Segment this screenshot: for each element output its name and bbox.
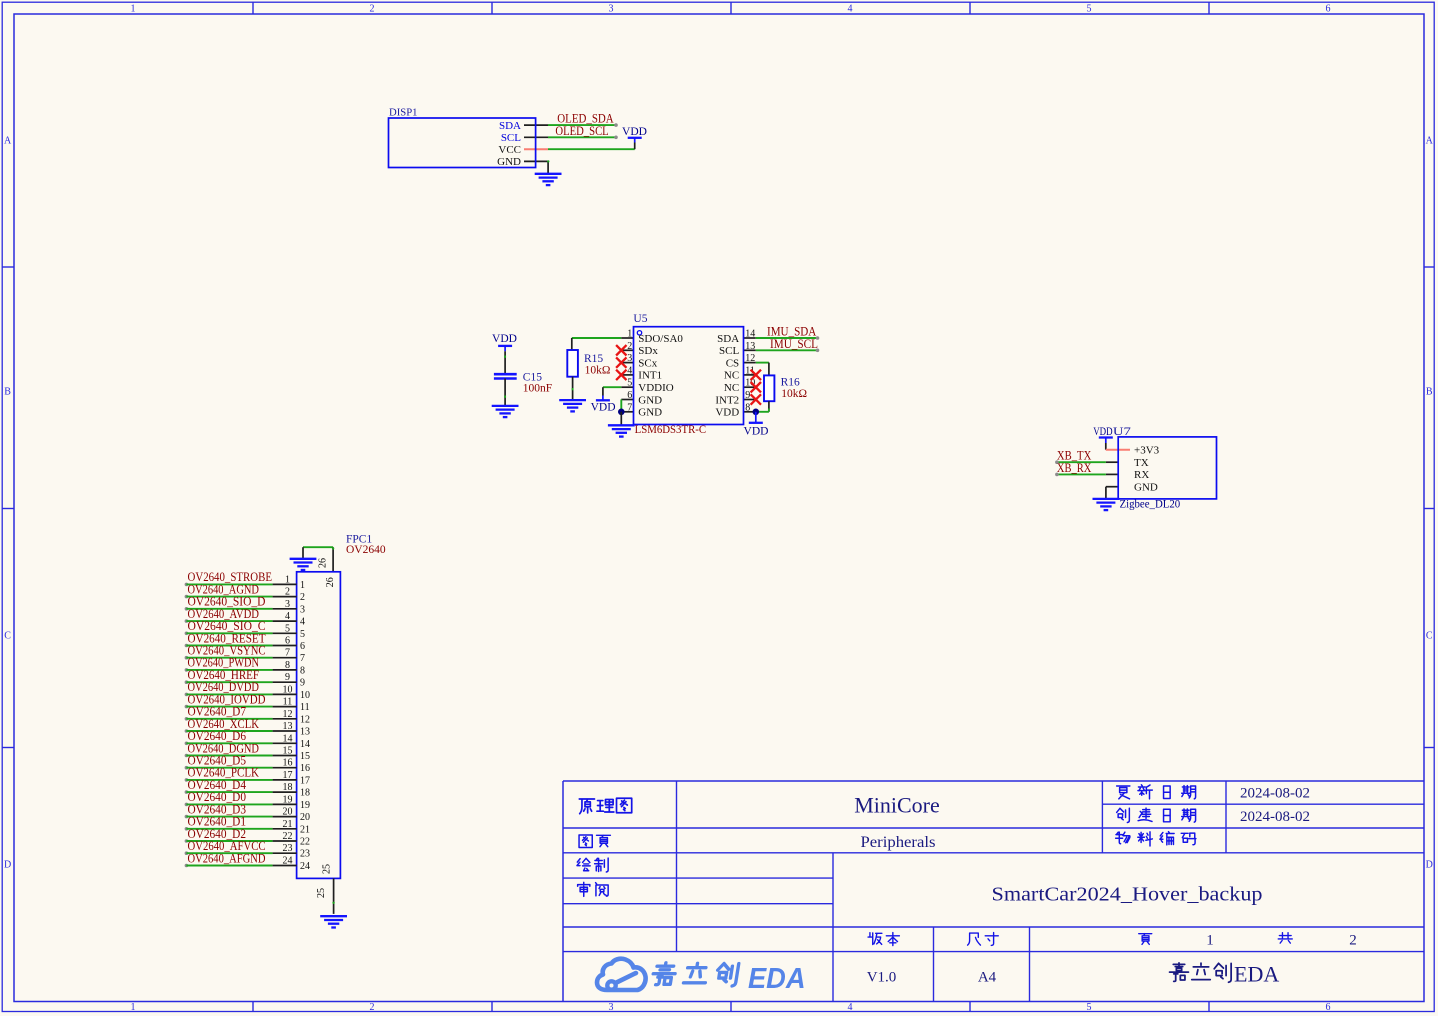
- svg-text:2: 2: [1349, 933, 1357, 949]
- svg-text:12: 12: [300, 714, 310, 725]
- svg-text:VDD: VDD: [492, 333, 517, 345]
- svg-text:NC: NC: [724, 370, 739, 382]
- svg-text:3: 3: [285, 599, 290, 610]
- svg-text:4: 4: [300, 617, 305, 628]
- svg-text:18: 18: [283, 782, 293, 793]
- svg-text:VDD: VDD: [591, 401, 616, 413]
- svg-text:19: 19: [283, 794, 293, 805]
- svg-text:9: 9: [300, 678, 305, 689]
- svg-text:16: 16: [283, 758, 293, 769]
- svg-text:OV2640_AFGND: OV2640_AFGND: [188, 851, 266, 865]
- svg-text:Zigbee_DL20: Zigbee_DL20: [1120, 499, 1181, 511]
- svg-text:15: 15: [300, 751, 310, 762]
- svg-text:10: 10: [283, 684, 293, 695]
- svg-text:GND: GND: [638, 407, 662, 419]
- svg-text:INT1: INT1: [638, 370, 662, 382]
- svg-text:RX: RX: [1134, 469, 1149, 481]
- svg-text:6: 6: [627, 390, 632, 401]
- svg-text:2024-08-02: 2024-08-02: [1240, 786, 1310, 802]
- svg-text:LSM6DS3TR-C: LSM6DS3TR-C: [635, 424, 707, 436]
- svg-text:25: 25: [316, 888, 327, 898]
- svg-text:4: 4: [285, 611, 290, 622]
- svg-text:23: 23: [300, 849, 310, 860]
- svg-text:5: 5: [1087, 1002, 1092, 1013]
- svg-text:3: 3: [609, 1002, 614, 1013]
- svg-text:24: 24: [283, 856, 293, 867]
- svg-text:B: B: [1426, 387, 1433, 398]
- svg-text:VDD: VDD: [622, 126, 647, 138]
- svg-text:21: 21: [300, 824, 310, 835]
- svg-text:22: 22: [283, 831, 293, 842]
- svg-text:C: C: [4, 631, 11, 642]
- svg-text:13: 13: [283, 721, 293, 732]
- svg-text:3: 3: [627, 353, 632, 364]
- svg-text:D: D: [1426, 860, 1433, 871]
- svg-text:2: 2: [300, 592, 305, 603]
- svg-text:5: 5: [627, 378, 632, 389]
- svg-text:U5: U5: [633, 313, 647, 325]
- svg-text:4: 4: [627, 365, 632, 376]
- svg-text:5: 5: [285, 623, 290, 634]
- svg-text:10: 10: [300, 690, 310, 701]
- svg-text:2: 2: [370, 1002, 375, 1013]
- svg-text:13: 13: [745, 341, 755, 352]
- svg-text:5: 5: [300, 629, 305, 640]
- svg-text:VDD: VDD: [744, 425, 769, 437]
- svg-text:SCL: SCL: [719, 345, 739, 357]
- svg-text:10kΩ: 10kΩ: [781, 388, 807, 400]
- svg-text:17: 17: [300, 775, 310, 786]
- svg-text:8: 8: [300, 665, 305, 676]
- svg-text:24: 24: [300, 861, 310, 872]
- svg-text:3: 3: [300, 604, 305, 615]
- svg-text:B: B: [4, 387, 11, 398]
- svg-text:14: 14: [283, 733, 293, 744]
- svg-text:21: 21: [283, 819, 293, 830]
- svg-text:1: 1: [627, 329, 632, 340]
- svg-text:1: 1: [1206, 933, 1214, 949]
- svg-text:15: 15: [283, 746, 293, 757]
- svg-text:VDD: VDD: [1093, 426, 1112, 438]
- svg-text:2: 2: [627, 341, 632, 352]
- svg-text:6: 6: [1326, 3, 1331, 14]
- svg-text:A: A: [4, 136, 12, 147]
- svg-text:8: 8: [745, 402, 750, 413]
- svg-text:6: 6: [1326, 1002, 1331, 1013]
- svg-text:7: 7: [300, 653, 305, 664]
- svg-text:7: 7: [627, 402, 632, 413]
- svg-text:6: 6: [300, 641, 305, 652]
- svg-text:6: 6: [285, 636, 290, 647]
- svg-text:CS: CS: [726, 357, 739, 369]
- svg-text:TX: TX: [1134, 457, 1149, 469]
- svg-text:4: 4: [848, 1002, 853, 1013]
- svg-text:INT2: INT2: [715, 394, 739, 406]
- svg-text:11: 11: [300, 702, 310, 713]
- svg-text:OV2640: OV2640: [346, 544, 386, 556]
- svg-text:SDA: SDA: [717, 333, 739, 345]
- svg-text:SCx: SCx: [638, 357, 657, 369]
- svg-text:V1.0: V1.0: [867, 970, 897, 986]
- svg-text:IMU_SCL: IMU_SCL: [770, 337, 818, 351]
- svg-text:13: 13: [300, 727, 310, 738]
- svg-text:Peripherals: Peripherals: [861, 834, 936, 851]
- svg-text:25: 25: [322, 864, 333, 874]
- svg-text:5: 5: [1087, 3, 1092, 14]
- svg-text:SDA: SDA: [499, 120, 521, 132]
- svg-text:2024-08-02: 2024-08-02: [1240, 809, 1310, 825]
- svg-text:7: 7: [285, 648, 290, 659]
- svg-text:14: 14: [745, 329, 755, 340]
- svg-text:VDD: VDD: [715, 407, 739, 419]
- svg-text:U7: U7: [1113, 426, 1131, 438]
- svg-text:2: 2: [370, 3, 375, 14]
- svg-text:12: 12: [283, 709, 293, 720]
- svg-text:DISP1: DISP1: [389, 107, 418, 119]
- svg-text:26: 26: [325, 577, 336, 587]
- svg-text:GND: GND: [638, 394, 662, 406]
- svg-text:26: 26: [318, 558, 329, 568]
- svg-text:17: 17: [283, 770, 293, 781]
- svg-text:OLED_SCL: OLED_SCL: [555, 124, 608, 138]
- svg-text:+3V3: +3V3: [1134, 445, 1160, 457]
- svg-text:14: 14: [300, 739, 310, 750]
- svg-text:VCC: VCC: [498, 144, 521, 156]
- svg-text:10kΩ: 10kΩ: [585, 365, 611, 377]
- svg-text:20: 20: [283, 807, 293, 818]
- svg-text:4: 4: [848, 3, 853, 14]
- svg-text:NC: NC: [724, 382, 739, 394]
- svg-text:D: D: [4, 860, 11, 871]
- svg-text:12: 12: [745, 353, 755, 364]
- svg-text:1: 1: [300, 580, 305, 591]
- svg-text:19: 19: [300, 800, 310, 811]
- svg-text:EDA: EDA: [748, 963, 806, 995]
- svg-text:9: 9: [285, 672, 290, 683]
- svg-text:EDA: EDA: [1234, 962, 1279, 987]
- svg-text:16: 16: [300, 763, 310, 774]
- svg-text:100nF: 100nF: [523, 383, 552, 395]
- svg-text:3: 3: [609, 3, 614, 14]
- svg-text:11: 11: [283, 697, 293, 708]
- svg-text:GND: GND: [497, 156, 521, 168]
- svg-text:XB_RX: XB_RX: [1057, 461, 1091, 475]
- svg-text:A4: A4: [978, 970, 997, 986]
- svg-text:9: 9: [745, 390, 750, 401]
- svg-text:22: 22: [300, 837, 310, 848]
- svg-text:1: 1: [285, 574, 290, 585]
- svg-text:23: 23: [283, 843, 293, 854]
- svg-text:SDO/SA0: SDO/SA0: [638, 333, 683, 345]
- svg-text:18: 18: [300, 788, 310, 799]
- svg-text:20: 20: [300, 812, 310, 823]
- svg-text:1: 1: [131, 3, 136, 14]
- svg-text:MiniCore: MiniCore: [854, 793, 940, 818]
- svg-text:SmartCar2024_Hover_backup: SmartCar2024_Hover_backup: [992, 884, 1263, 906]
- svg-text:A: A: [1426, 136, 1434, 147]
- svg-text:R15: R15: [584, 353, 603, 365]
- svg-text:1: 1: [131, 1002, 136, 1013]
- svg-text:2: 2: [285, 587, 290, 598]
- svg-text:VDDIO: VDDIO: [638, 382, 673, 394]
- svg-text:GND: GND: [1134, 482, 1158, 494]
- svg-text:8: 8: [285, 660, 290, 671]
- svg-text:SCL: SCL: [501, 132, 521, 144]
- svg-text:SDx: SDx: [638, 345, 658, 357]
- svg-text:C: C: [1426, 631, 1433, 642]
